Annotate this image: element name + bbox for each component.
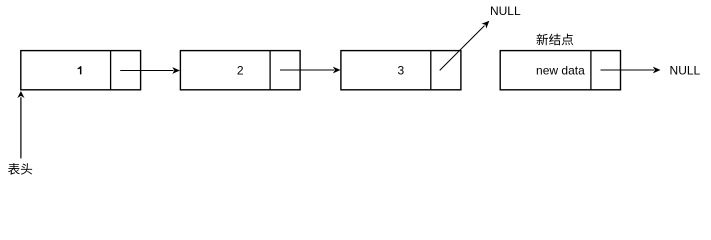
wire: arrow node 2 to node 3 [280,67,341,74]
node label 新结点 (new node) [537,34,574,46]
svg-text:2: 2 [237,63,244,77]
divider node 4 [590,51,592,90]
divider node 2 [269,51,271,90]
divider node 1 [110,51,112,90]
node label 表头 (list head) [8,163,32,175]
wire: head pointer arrow (表头 to node 1) [17,91,24,158]
wire: arrow new node to NULL [601,67,661,74]
node NULL (right) [670,64,701,78]
value label 1 [78,66,82,74]
value label 2 [237,63,244,77]
node 2 (list node) [180,51,300,90]
node 4 (new node) [500,51,620,90]
divider node 3 [430,51,432,90]
svg-text:3: 3 [398,63,405,77]
svg-text:NULL: NULL [670,64,701,78]
node NULL (top) [490,4,521,18]
node 3 (list node) [341,51,461,90]
wire: arrow node 1 to node 2 [120,67,180,74]
svg-text:NULL: NULL [490,4,521,18]
wire: diagonal arrow node 3 to NULL [440,18,492,70]
value label new data [536,63,585,77]
node 1 (list node) [21,51,141,90]
svg-text:new data: new data [536,63,585,77]
value label 3 [398,63,405,77]
